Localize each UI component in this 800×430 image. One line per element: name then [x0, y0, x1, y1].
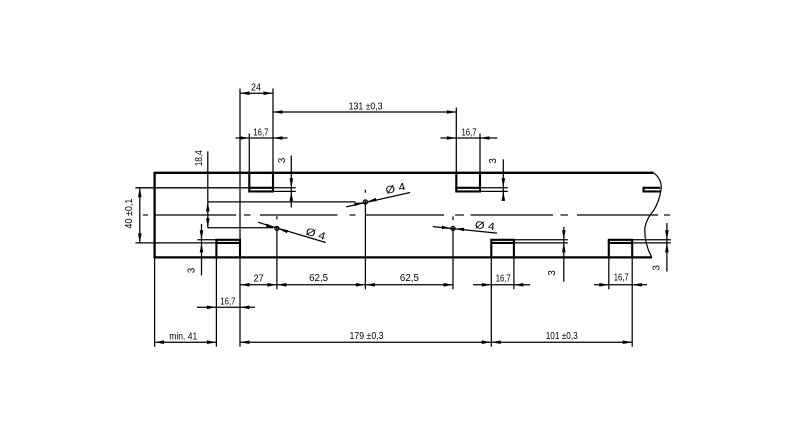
dimension 18,4 [206, 151, 355, 228]
dimension 3 bottom right [665, 223, 669, 272]
extension line x=216.4 below part [215, 257, 217, 346]
dimension 24 [240, 91, 273, 95]
svg-text:16,7: 16,7 [220, 297, 235, 308]
partial top slot at break [644, 187, 661, 193]
extension line top slot2 right [479, 134, 481, 173]
dimension 16,7 bottom middle [473, 283, 530, 287]
dimension chain 27 / 62,5 / 62,5 [240, 283, 453, 287]
svg-text:16,7: 16,7 [253, 128, 268, 139]
svg-text:16,7: 16,7 [496, 273, 511, 284]
dimension 16,7 top right [441, 136, 498, 140]
bottom slot right [608, 240, 633, 258]
hole lower left [275, 226, 279, 230]
top flange line [135, 187, 249, 189]
extension line bottom slot mid right [513, 257, 515, 289]
dimension 3 bottom left [200, 224, 204, 275]
leader hole upper [346, 193, 410, 207]
extension line bottom slot mid left [490, 257, 492, 346]
extension line top slot2 left [455, 108, 457, 173]
part bottom edge [155, 256, 652, 258]
dimension 16,7 bottom right [594, 283, 647, 287]
leader hole lower left [258, 222, 326, 242]
svg-text:Ø 4: Ø 4 [474, 219, 495, 233]
hole lower right vertical centerline [452, 217, 454, 290]
svg-text:3: 3 [277, 157, 288, 163]
bottom slot 1 extension line [198, 239, 217, 241]
extension line bottom slot right right [631, 257, 633, 346]
dimension 3 bottom middle [562, 227, 566, 282]
hole lower right [451, 226, 455, 230]
extension line top slot1 right [272, 89, 274, 173]
bottom flange line middle ext [514, 242, 568, 244]
bottom slot middle [490, 240, 515, 258]
extension line top slot1 left [248, 134, 250, 173]
dimension 16,7 top left [236, 136, 288, 140]
extension line bottom slot right left [608, 257, 610, 289]
svg-text:27: 27 [254, 274, 264, 285]
svg-text:62,5: 62,5 [309, 273, 328, 284]
bottom slot right extension line [632, 239, 671, 241]
bottom slot middle extension line [514, 239, 568, 241]
svg-text:3: 3 [488, 158, 499, 164]
part left edge [153, 172, 155, 259]
dimension 101 ±0,3 [491, 340, 632, 344]
svg-text:16,7: 16,7 [614, 273, 629, 284]
dimension 179 ±0,3 [240, 340, 491, 344]
svg-text:24: 24 [251, 83, 261, 94]
svg-text:62,5: 62,5 [400, 273, 419, 284]
svg-text:131 ±0,3: 131 ±0,3 [349, 101, 383, 112]
svg-text:min. 41: min. 41 [169, 332, 197, 343]
top slot 1 [248, 173, 274, 192]
break line at right end [645, 173, 661, 258]
svg-text:179 ±0,3: 179 ±0,3 [350, 331, 384, 342]
leader hole lower right [433, 226, 497, 234]
bottom slot 1 [215, 240, 241, 258]
extension line x=240 full [239, 89, 241, 347]
svg-text:3: 3 [651, 265, 662, 271]
top slot 1 extension lines [273, 188, 296, 192]
svg-text:16,7: 16,7 [462, 128, 477, 139]
centerline [143, 214, 670, 216]
bottom flange line right ext [632, 242, 671, 244]
top slot 2 [455, 173, 481, 192]
top slot 2 extension lines [480, 188, 508, 192]
part top edge [155, 172, 654, 174]
dimension 131 ±0,3 [273, 110, 456, 114]
svg-text:3: 3 [547, 270, 558, 276]
hole upper vertical centerline [364, 190, 366, 290]
dimension min. 41 [155, 340, 217, 344]
extension line left edge below part [154, 259, 156, 347]
svg-text:40 ±0,1: 40 ±0,1 [124, 198, 135, 228]
dimension 3 top slot 2 [502, 159, 506, 201]
hole upper [363, 200, 367, 204]
bottom flange line left [135, 242, 216, 244]
dimension 3 top slot 1 [290, 156, 294, 208]
dimension 16,7 bottom left [197, 306, 255, 310]
hole lower left vertical centerline [276, 216, 278, 289]
svg-text:3: 3 [187, 267, 198, 273]
svg-text:101 ±0,3: 101 ±0,3 [546, 331, 578, 342]
svg-text:18,4: 18,4 [194, 150, 205, 166]
svg-text:Ø 4: Ø 4 [304, 226, 327, 243]
dimension 40 ±0,1 [138, 188, 142, 243]
